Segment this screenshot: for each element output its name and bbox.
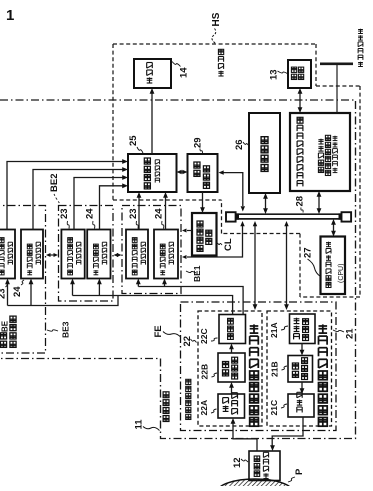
svg-text:BE3: BE3 [61,321,71,338]
svg-text:22C: 22C [199,328,209,344]
svg-text:28: 28 [295,196,306,207]
svg-text:21: 21 [345,328,356,339]
svg-text:22: 22 [182,336,193,347]
svg-text:29: 29 [193,137,204,148]
svg-text:22B: 22B [200,364,210,380]
svg-text:21C: 21C [269,400,279,416]
svg-text:23: 23 [59,208,70,219]
svg-text:CL: CL [223,238,234,251]
svg-text:BE1: BE1 [192,265,202,282]
svg-text:P: P [294,468,305,475]
svg-text:(CPU): (CPU) [338,264,345,283]
svg-text:23: 23 [128,208,139,219]
svg-text:FE: FE [153,325,164,337]
svg-text:14: 14 [179,67,190,78]
svg-text:22A: 22A [199,400,209,416]
svg-text:BE: BE [1,320,10,332]
svg-text:21B: 21B [270,361,280,377]
svg-text:21A: 21A [269,322,279,338]
svg-text:25: 25 [128,135,139,146]
svg-text:11: 11 [134,419,145,430]
svg-text:HS: HS [211,12,222,26]
svg-text:24: 24 [12,286,23,297]
svg-text:BE2: BE2 [49,174,60,192]
svg-text:24: 24 [85,208,96,219]
svg-text:27: 27 [303,247,314,258]
svg-text:23: 23 [0,288,8,299]
svg-text:1: 1 [6,7,14,24]
svg-text:24: 24 [154,208,165,219]
svg-text:26: 26 [234,139,245,150]
